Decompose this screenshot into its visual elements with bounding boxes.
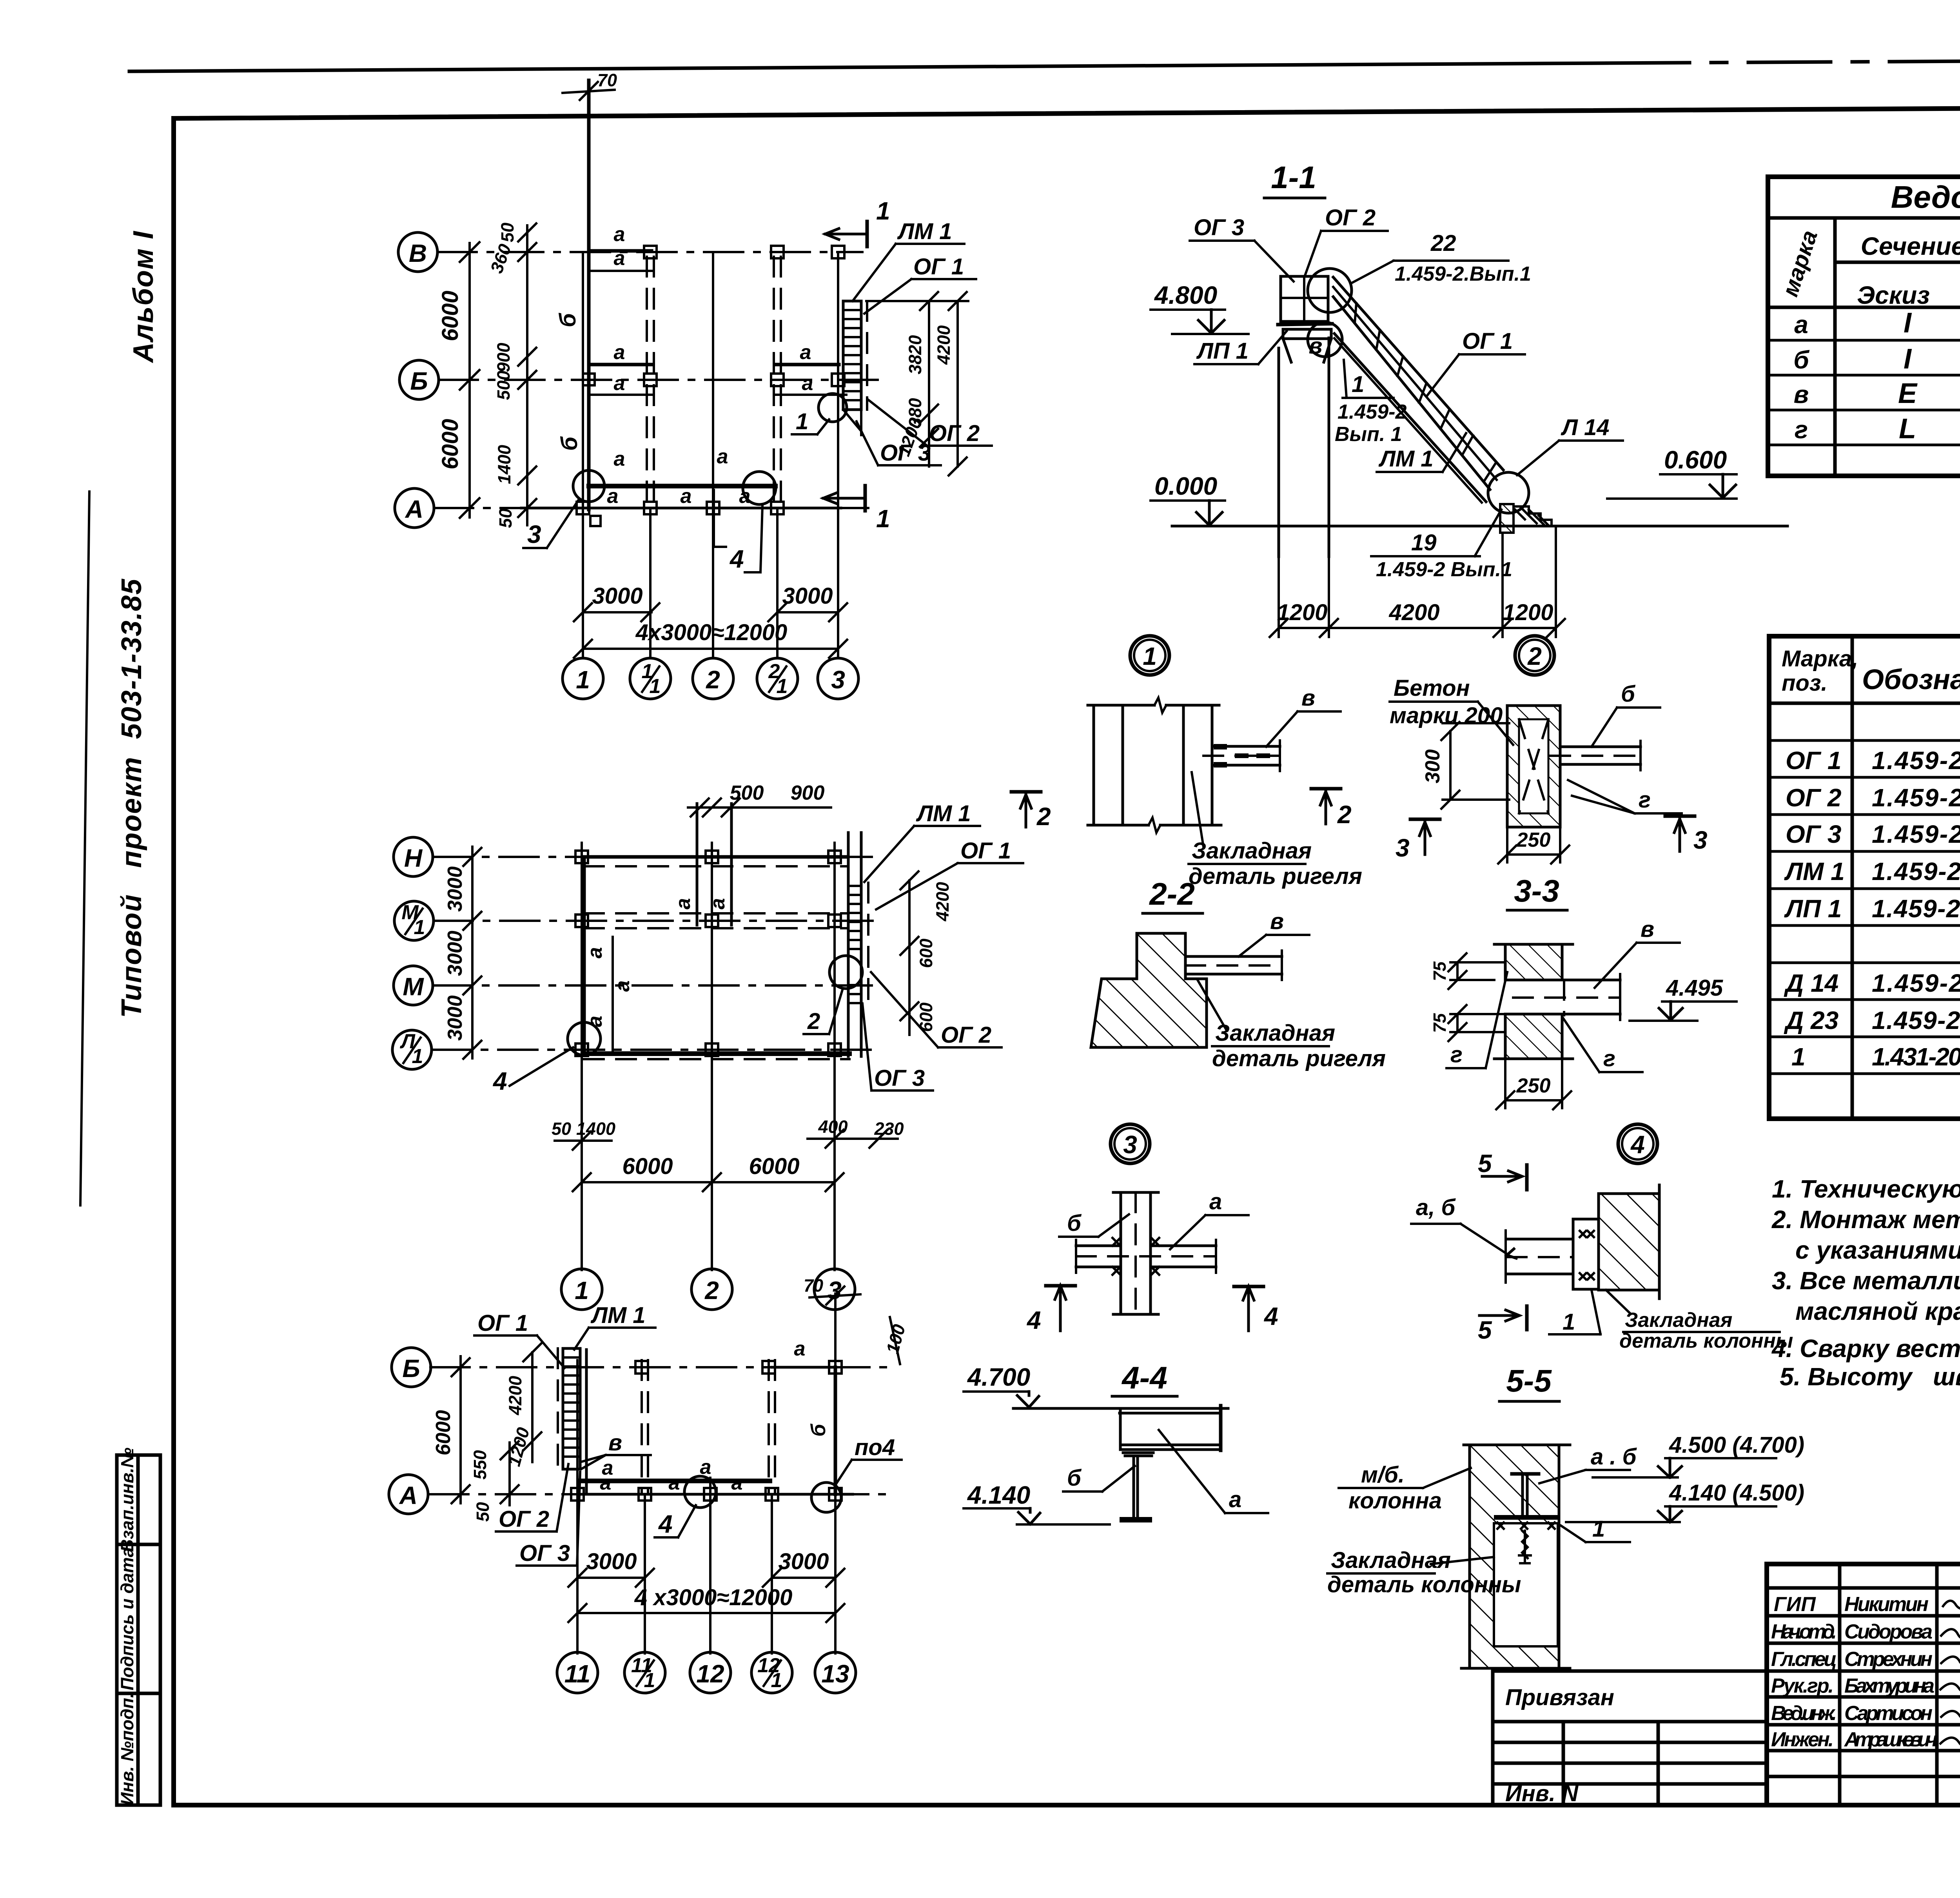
svg-text:6000: 6000 xyxy=(622,1154,673,1179)
column circle 1/1 xyxy=(630,658,671,699)
svg-text:230: 230 xyxy=(874,1119,904,1139)
foundation block hatched xyxy=(1500,504,1552,533)
svg-text:1.431-20. Вып.7. 2. 2: 1.431-20. Вып.7. 2. 2 xyxy=(1872,1043,1960,1071)
svg-text:а: а xyxy=(614,372,625,395)
svg-text:1400: 1400 xyxy=(494,445,514,484)
dims 75 75 3-3 xyxy=(1430,953,1505,1041)
svg-text:1.459-2. Вып. 2: 1.459-2. Вып. 2 xyxy=(1872,746,1960,775)
svg-text:3. Все металлические конструкц: 3. Все металлические конструкции, после … xyxy=(1772,1267,1960,1295)
axis circle Н xyxy=(394,837,433,876)
svg-text:ОГ 2: ОГ 2 xyxy=(941,1022,991,1048)
beam frame left xyxy=(584,857,634,1054)
svg-text:550: 550 xyxy=(470,1450,490,1479)
svg-text:ЛМ 1: ЛМ 1 xyxy=(590,1303,646,1328)
svg-text:ЛП 1: ЛП 1 xyxy=(1196,338,1249,364)
bottom dim 4x3000 xyxy=(574,620,847,658)
svg-text:2. Монтаж металлических констр: 2. Монтаж металлических конструкций вест… xyxy=(1771,1205,1960,1234)
svg-text:деталь ригеля: деталь ригеля xyxy=(1189,864,1362,889)
svg-text:ОГ 3: ОГ 3 xyxy=(1194,215,1244,240)
svg-text:3-3: 3-3 xyxy=(1514,873,1559,908)
label 1 detail4 xyxy=(1549,1290,1601,1335)
svg-text:Вед.инж.: Вед.инж. xyxy=(1771,1702,1837,1725)
svg-text:а: а xyxy=(607,485,619,508)
svg-text:Б: Б xyxy=(402,1354,420,1383)
svg-text:а: а xyxy=(672,898,695,909)
svg-text:4: 4 xyxy=(1263,1302,1278,1330)
svg-text:4: 4 xyxy=(1630,1130,1645,1159)
svg-text:1. Техническую спецификацию на: 1. Техническую спецификацию на металл см… xyxy=(1772,1175,1960,1203)
svg-text:75: 75 xyxy=(1430,1013,1450,1033)
leader ЛМ 1 plan2 xyxy=(864,801,980,882)
svg-text:70: 70 xyxy=(804,1276,823,1296)
Л/1 beams xyxy=(584,1054,849,1059)
column circle 2 xyxy=(693,658,733,699)
svg-text:4-4: 4-4 xyxy=(1121,1360,1167,1395)
svg-text:1-1: 1-1 xyxy=(1271,160,1316,195)
axis Б line xyxy=(430,1366,894,1368)
svg-text:3000: 3000 xyxy=(778,1549,829,1574)
grid line 1/1 dashed pair xyxy=(647,257,654,658)
column under platform xyxy=(1279,338,1329,557)
label а detail3 xyxy=(1170,1189,1249,1249)
svg-text:а: а xyxy=(669,1472,680,1494)
section mark 4 left xyxy=(1026,1286,1075,1334)
svg-text:а: а xyxy=(681,485,692,508)
label закладная деталь колонны 5-5 xyxy=(1327,1548,1521,1597)
svg-text:1: 1 xyxy=(876,197,890,225)
svg-text:ЛМ 1: ЛМ 1 xyxy=(916,801,971,826)
svg-text:3: 3 xyxy=(527,520,541,548)
detail callout 1 xyxy=(1130,636,1169,675)
label г detail2 xyxy=(1568,780,1682,813)
beam on Б axis right xyxy=(772,1337,835,1367)
svg-text:а: а xyxy=(584,947,606,958)
svg-text:ОГ 1: ОГ 1 xyxy=(1462,328,1513,354)
label в 3-3 xyxy=(1595,916,1680,988)
svg-text:3000: 3000 xyxy=(782,583,833,609)
grid verticals plan3 xyxy=(577,1350,586,1653)
bottom dim 4x3000 plan3 xyxy=(568,1585,844,1622)
svg-text:в: в xyxy=(1270,909,1284,934)
svg-text:а: а xyxy=(1794,310,1808,339)
svg-text:4: 4 xyxy=(492,1067,507,1095)
label в 2-2 xyxy=(1239,909,1309,956)
axis circle М xyxy=(394,966,433,1005)
svg-text:250: 250 xyxy=(1516,829,1551,851)
leader 22 / 1.459-2.Вып.1 xyxy=(1352,230,1531,285)
svg-text:3: 3 xyxy=(1396,834,1410,862)
svg-text:3000: 3000 xyxy=(592,583,642,609)
svg-text:Гл.спец: Гл.спец xyxy=(1771,1648,1837,1671)
label б detail3 xyxy=(1059,1210,1129,1237)
axis circle Л/1 xyxy=(392,1030,432,1069)
svg-text:2-2: 2-2 xyxy=(1149,876,1195,911)
svg-text:Стрехнин: Стрехнин xyxy=(1844,1648,1933,1671)
leader ОГ 2 plan3 xyxy=(496,1464,568,1532)
svg-text:2: 2 xyxy=(706,666,720,694)
svg-text:в: в xyxy=(1308,333,1322,359)
column circle 2 xyxy=(691,1269,732,1310)
svg-text:г: г xyxy=(1639,787,1651,813)
svg-text:Инв. N: Инв. N xyxy=(1505,1781,1579,1806)
svg-text:Сидорова: Сидорова xyxy=(1844,1620,1933,1643)
svg-text:Инв. №подп.: Инв. №подп. xyxy=(117,1693,137,1805)
leader ОГ 3 sec xyxy=(1190,215,1294,281)
svg-text:деталь колонны: деталь колонны xyxy=(1327,1572,1521,1597)
svg-text:Закладная: Закладная xyxy=(1215,1020,1335,1046)
label м/б колонна xyxy=(1339,1462,1471,1513)
svg-text:1.459-2 Вып.1: 1.459-2 Вып.1 xyxy=(1376,558,1512,581)
stair ladder ЛМ1 plan xyxy=(843,301,867,435)
svg-text:а, б: а, б xyxy=(1416,1195,1456,1220)
svg-text:а: а xyxy=(731,1472,743,1494)
sheet top trim line xyxy=(129,58,1960,108)
grid line 2 xyxy=(711,843,713,1270)
faint scan edge line xyxy=(80,492,89,1205)
section mark 4 right xyxy=(1234,1287,1278,1331)
svg-text:600: 600 xyxy=(916,938,936,968)
svg-text:Никитин: Никитин xyxy=(1844,1593,1929,1616)
left dim 3000x3 xyxy=(444,847,481,1059)
bottom dim 1200/4200/1200 xyxy=(1270,527,1565,637)
svg-text:а: а xyxy=(800,341,811,364)
section 4-4 xyxy=(1013,1360,1228,1522)
svg-text:м/б.: м/б. xyxy=(1361,1462,1405,1488)
svg-text:2: 2 xyxy=(704,1276,719,1305)
dim 300 detail2 xyxy=(1421,722,1509,809)
svg-text:I: I xyxy=(1904,307,1912,339)
section mark 5 bottom xyxy=(1478,1306,1527,1344)
title 1-1 xyxy=(1264,160,1325,198)
section mark 3 right xyxy=(1665,816,1708,854)
column circle 3 xyxy=(814,1269,855,1310)
svg-text:1.459-2. Вып. 2: 1.459-2. Вып. 2 xyxy=(1872,784,1960,812)
svg-text:4х3000≈12000: 4х3000≈12000 xyxy=(635,620,788,645)
svg-text:Закладная: Закладная xyxy=(1192,838,1312,864)
svg-text:4: 4 xyxy=(1026,1306,1041,1334)
svg-text:1200: 1200 xyxy=(1277,600,1327,625)
axis circle Б xyxy=(392,1348,431,1387)
column squares on А xyxy=(577,502,784,526)
elevation 4.700 sec4-4 xyxy=(964,1363,1039,1407)
stair flight band ladder xyxy=(1333,277,1503,503)
elevation 4.800 xyxy=(1151,281,1249,334)
left margin vertical text: Альбом I xyxy=(128,230,159,363)
svg-text:ГИП: ГИП xyxy=(1774,1593,1816,1616)
svg-text:6000: 6000 xyxy=(437,419,463,469)
leader 19 / 1.459-2 Вып.1 xyxy=(1371,510,1512,581)
svg-text:А: А xyxy=(399,1481,417,1510)
svg-text:поз.: поз. xyxy=(1782,670,1828,696)
svg-text:а: а xyxy=(614,448,625,470)
top dim 500/900 xyxy=(688,782,831,817)
svg-text:2: 2 xyxy=(1527,642,1542,670)
dim 250 detail2 xyxy=(1498,829,1569,864)
svg-text:Нач.отд.: Нач.отд. xyxy=(1771,1620,1837,1643)
svg-text:б: б xyxy=(555,312,581,327)
svg-text:4.495: 4.495 xyxy=(1666,975,1723,1001)
bottom small dims xyxy=(552,1117,904,1150)
beams near Б right xyxy=(775,341,846,395)
left bottom side boxes xyxy=(117,1448,160,1805)
svg-text:Бахтурина: Бахтурина xyxy=(1844,1675,1935,1697)
axis А line xyxy=(434,507,868,509)
svg-text:3000: 3000 xyxy=(444,866,466,912)
svg-text:г: г xyxy=(1603,1046,1615,1071)
svg-text:Подпись и дата: Подпись и дата xyxy=(117,1548,137,1691)
column circles 11 11/1 12 12/1 13 xyxy=(557,1652,598,1693)
detail 3: beams cross xyxy=(1076,1192,1216,1314)
svg-text:250: 250 xyxy=(1516,1074,1551,1097)
label в detail1 xyxy=(1266,685,1341,747)
svg-text:ОГ 3: ОГ 3 xyxy=(880,440,931,466)
svg-text:Вып. 1: Вып. 1 xyxy=(1335,423,1402,446)
column squares plan3 xyxy=(571,1361,842,1501)
svg-text:5: 5 xyxy=(1478,1149,1492,1178)
svg-text:4200: 4200 xyxy=(933,882,953,922)
svg-text:4.140 (4.500): 4.140 (4.500) xyxy=(1669,1480,1804,1506)
bottom dim 3000 left xyxy=(574,583,659,621)
section mark 3 left xyxy=(1396,819,1440,862)
svg-text:22: 22 xyxy=(1430,230,1456,256)
svg-text:6000: 6000 xyxy=(437,290,463,341)
svg-text:б: б xyxy=(1793,346,1810,374)
elevation 4.140(4.500) xyxy=(1566,1480,1804,1522)
svg-text:4.800: 4.800 xyxy=(1154,281,1217,309)
svg-text:11: 11 xyxy=(564,1660,590,1688)
svg-text:4 х3000≈12000: 4 х3000≈12000 xyxy=(634,1585,793,1610)
svg-text:деталь колонны: деталь колонны xyxy=(1619,1330,1793,1352)
svg-text:1: 1 xyxy=(1791,1043,1806,1071)
svg-text:Сартисон: Сартисон xyxy=(1844,1702,1933,1725)
svg-text:500: 500 xyxy=(494,370,514,400)
svg-text:Эскиз: Эскиз xyxy=(1857,281,1930,309)
section mark 2 right xyxy=(1311,789,1352,829)
leader ОГ 3 plan3 xyxy=(517,1472,580,1566)
svg-text:300: 300 xyxy=(1421,749,1444,784)
leader Л 14 xyxy=(1517,415,1623,475)
label б sec4-4 xyxy=(1063,1465,1135,1492)
axis Н line xyxy=(433,856,874,858)
label г 3-3 right xyxy=(1563,1018,1642,1072)
svg-text:6000: 6000 xyxy=(432,1410,455,1455)
svg-text:ОГ 1: ОГ 1 xyxy=(477,1310,528,1336)
svg-text:900: 900 xyxy=(494,343,514,372)
svg-text:а: а xyxy=(794,1337,806,1360)
axis circle В xyxy=(398,232,437,272)
svg-text:6000: 6000 xyxy=(749,1154,799,1179)
label а sec4-4 xyxy=(1159,1430,1268,1513)
svg-text:в: в xyxy=(1641,916,1654,942)
svg-text:В: В xyxy=(409,239,427,267)
svg-text:ОГ 2: ОГ 2 xyxy=(499,1506,549,1532)
svg-text:Привязан: Привязан xyxy=(1505,1685,1614,1710)
svg-text:а: а xyxy=(611,980,634,992)
stair plan2 xyxy=(848,833,868,1056)
leader ОГ 3 xyxy=(857,421,941,466)
beam above А xyxy=(579,1456,770,1481)
leader ОГ 1 plan3 xyxy=(474,1310,564,1368)
leader ОГ 1 plan2 xyxy=(876,838,1023,909)
left margin vertical text: Типовой проект 503-1-33.85 xyxy=(116,579,147,1018)
axis Л/1 line xyxy=(432,1049,874,1051)
section mark 1 top xyxy=(825,197,890,247)
svg-text:Типовой проект 503-1-33.85: Типовой проект 503-1-33.85 xyxy=(116,579,147,1018)
svg-text:1.459-2. Вып. 2: 1.459-2. Вып. 2 xyxy=(1872,820,1960,848)
svg-text:50: 50 xyxy=(552,1119,571,1139)
svg-text:2: 2 xyxy=(1036,802,1051,831)
svg-text:900: 900 xyxy=(791,782,825,804)
svg-text:Сечение: Сечение xyxy=(1861,232,1960,260)
svg-text:ЛМ 1: ЛМ 1 xyxy=(897,219,952,244)
detail 1: column I with beam xyxy=(1088,698,1280,833)
svg-text:4: 4 xyxy=(658,1510,673,1538)
elevation 0.000 xyxy=(1151,472,1225,525)
axis circle А xyxy=(389,1475,428,1514)
label б detail2 xyxy=(1592,681,1660,747)
svg-text:деталь ригеля: деталь ригеля xyxy=(1212,1046,1386,1071)
stair ladder plan3 xyxy=(558,1348,580,1469)
leader ЛП 1 sec xyxy=(1194,331,1287,364)
beam on А axis xyxy=(579,1472,853,1494)
leader 4 xyxy=(714,472,776,573)
column circle 2/1 xyxy=(757,658,798,699)
svg-text:масляной краской за 2 раза: масляной краской за 2 раза . xyxy=(1795,1297,1960,1325)
svg-text:а: а xyxy=(717,445,728,468)
label а.б 5-5 xyxy=(1539,1444,1637,1483)
thick vertical beam б xyxy=(555,80,589,510)
leader ОГ 1 sec xyxy=(1427,328,1525,396)
grid line 2/1 dashed pair xyxy=(774,257,781,658)
axis Б line xyxy=(439,379,884,381)
svg-text:4. Сварку вести электродами Э: 4. Сварку вести электродами Э-42 по ГОСТ… xyxy=(1771,1334,1960,1363)
detail callout 4 xyxy=(1618,1124,1657,1163)
svg-text:13: 13 xyxy=(821,1660,849,1688)
elevation 4.140 sec4-4 xyxy=(964,1481,1110,1524)
label Бетон марки 200 xyxy=(1390,675,1513,745)
leader 1 / 1.459-2 Вып.1 xyxy=(1335,360,1406,446)
svg-text:б: б xyxy=(1621,681,1636,707)
svg-text:4: 4 xyxy=(729,545,744,573)
svg-text:1: 1 xyxy=(1563,1309,1575,1335)
svg-text:L: L xyxy=(1899,413,1916,445)
left dim 6000 xyxy=(432,1356,470,1503)
grid line 3 xyxy=(837,252,839,658)
svg-text:ОГ 3: ОГ 3 xyxy=(874,1065,925,1091)
svg-text:а: а xyxy=(600,1472,612,1494)
section 3-3 xyxy=(1494,873,1620,1059)
svg-text:4200: 4200 xyxy=(934,325,954,365)
svg-text:1: 1 xyxy=(1352,372,1364,397)
svg-text:Рук.гр.: Рук.гр. xyxy=(1771,1675,1834,1697)
svg-text:б: б xyxy=(1067,1465,1082,1491)
svg-text:ОГ 2: ОГ 2 xyxy=(929,421,980,446)
stair bottom circle xyxy=(1488,472,1529,513)
svg-text:б: б xyxy=(1067,1210,1082,1236)
svg-text:Ведомость: Ведомость xyxy=(1891,180,1960,214)
right dim 3820/4200 xyxy=(866,292,968,475)
svg-text:г: г xyxy=(1450,1042,1463,1067)
svg-text:75: 75 xyxy=(1430,961,1450,981)
svg-text:г: г xyxy=(1795,416,1808,444)
label а,б detail4 xyxy=(1411,1195,1516,1258)
leader ОГ 3 plan2 xyxy=(862,1003,933,1091)
svg-text:колонна: колонна xyxy=(1348,1488,1442,1513)
svg-text:400: 400 xyxy=(818,1117,848,1137)
svg-text:19: 19 xyxy=(1411,530,1437,555)
column squares on В and Б xyxy=(583,246,844,386)
svg-text:а: а xyxy=(614,341,625,364)
elevation 0.600 xyxy=(1607,446,1737,499)
svg-text:I: I xyxy=(1904,343,1912,375)
grid line 2 xyxy=(712,252,714,658)
leader в plan3 xyxy=(580,1430,651,1469)
svg-text:Л 14: Л 14 xyxy=(1561,415,1609,440)
М/1 dashed beam xyxy=(584,913,847,928)
axis В line xyxy=(437,251,862,253)
left dim line 6000/6000 xyxy=(437,242,479,518)
detail callout 3 xyxy=(1111,1124,1150,1163)
svg-text:1200: 1200 xyxy=(1503,600,1553,625)
svg-text:ОГ 3: ОГ 3 xyxy=(1786,820,1841,848)
right dims plan2 xyxy=(900,871,953,1035)
svg-text:1400: 1400 xyxy=(576,1119,615,1139)
svg-text:ЛМ 1: ЛМ 1 xyxy=(1784,857,1845,885)
label г 3-3 left xyxy=(1446,972,1507,1068)
leader ОГ 1 xyxy=(864,254,976,314)
beams near Б left xyxy=(589,341,652,395)
node circle 1 on stair xyxy=(792,394,847,434)
svg-text:1.459-2: 1.459-2 xyxy=(1338,401,1406,423)
axis М/1 line xyxy=(434,920,874,922)
svg-text:Д 14: Д 14 xyxy=(1784,969,1838,997)
svg-text:а: а xyxy=(1229,1487,1241,1512)
dim 70 at top xyxy=(563,70,617,100)
svg-text:а: а xyxy=(1209,1189,1222,1214)
label закладная деталь ригеля 2-2 xyxy=(1198,980,1386,1071)
beam on axis А xyxy=(521,485,841,508)
svg-text:12: 12 xyxy=(696,1660,724,1688)
svg-text:а . б: а . б xyxy=(1591,1444,1637,1470)
svg-text:3: 3 xyxy=(1693,826,1708,854)
leader ОГ 2 plan2 xyxy=(871,972,1002,1048)
svg-text:70: 70 xyxy=(597,70,617,90)
svg-text:б: б xyxy=(557,436,582,451)
svg-text:а: а xyxy=(802,372,813,395)
svg-text:5. Высоту швов принять 6: 5. Высоту швов принять 6 мм. xyxy=(1780,1363,1960,1391)
svg-text:Закладная: Закладная xyxy=(1331,1548,1451,1573)
beam frame top Н xyxy=(584,857,847,866)
detail callout 2 xyxy=(1515,636,1554,675)
svg-text:Д 23: Д 23 xyxy=(1784,1006,1838,1034)
svg-text:3000: 3000 xyxy=(586,1549,637,1574)
small dim chain left xyxy=(486,223,536,528)
label закладная деталь колонны d4 xyxy=(1606,1290,1793,1352)
svg-text:Бетон: Бетон xyxy=(1394,675,1470,701)
bottom dim 6000 6000 xyxy=(573,1154,844,1191)
label 1 5-5 xyxy=(1561,1516,1630,1542)
leader 3 xyxy=(523,470,604,548)
svg-text:Взап.инв.№: Взап.инв.№ xyxy=(117,1448,137,1552)
svg-text:4.500 (4.700): 4.500 (4.700) xyxy=(1669,1432,1804,1458)
right vertical beam б xyxy=(807,1367,835,1494)
svg-text:1: 1 xyxy=(575,1276,589,1305)
svg-text:3000: 3000 xyxy=(444,931,466,976)
svg-text:Б: Б xyxy=(410,367,428,395)
svg-text:1.459-2. Вып.1: 1.459-2. Вып.1 xyxy=(1872,969,1960,997)
axis М line xyxy=(433,984,874,987)
svg-text:1: 1 xyxy=(576,666,590,694)
